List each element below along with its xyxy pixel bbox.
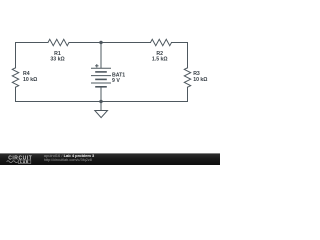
ground xyxy=(95,102,108,118)
svg-text:10 kΩ: 10 kΩ xyxy=(23,77,37,83)
battery + polarity mark xyxy=(95,64,98,67)
wire top-middle segment xyxy=(69,42,151,44)
node junction top (battery/top rail) xyxy=(99,41,102,44)
svg-text:10 kΩ: 10 kΩ xyxy=(193,77,207,83)
resistor R2 xyxy=(151,39,172,45)
wire battery top lead xyxy=(100,43,102,69)
wire right vertical upper xyxy=(187,43,189,68)
wire top-right segment xyxy=(172,42,188,44)
svg-text:http://circuitlab.com/c/3fq2z8: http://circuitlab.com/c/3fq2z8 xyxy=(44,158,92,162)
wire left vertical upper xyxy=(15,43,17,68)
resistor R1 xyxy=(48,39,69,45)
watermark logo wave xyxy=(7,161,18,163)
wire top-left segment xyxy=(16,42,49,44)
battery BAT1 plates xyxy=(92,68,111,87)
svg-text:1.5 kΩ: 1.5 kΩ xyxy=(152,57,168,63)
resistor R3 xyxy=(184,68,190,87)
wire right vertical lower xyxy=(187,87,189,101)
node junction bottom (battery/bottom rail) xyxy=(99,100,102,103)
wire battery bottom lead xyxy=(100,87,102,102)
wire left vertical lower xyxy=(15,87,17,101)
svg-text:LAB: LAB xyxy=(20,160,29,164)
resistor R4 xyxy=(12,68,18,87)
svg-text:33 kΩ: 33 kΩ xyxy=(50,57,64,63)
svg-text:9 V: 9 V xyxy=(112,78,120,84)
wire bottom rail xyxy=(16,101,188,103)
watermark logo LAB xyxy=(18,160,30,164)
